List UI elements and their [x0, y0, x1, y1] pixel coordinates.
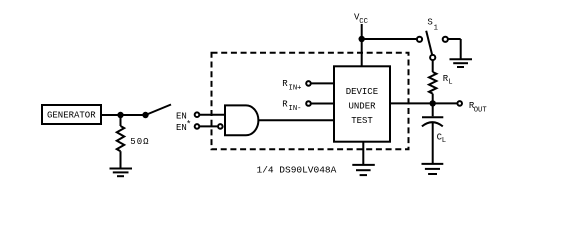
svg-text:1: 1 — [434, 25, 438, 33]
svg-text:L: L — [448, 79, 452, 87]
svg-text:IN-: IN- — [289, 105, 302, 113]
svg-text:UNDER: UNDER — [349, 102, 377, 112]
svg-text:*: * — [186, 119, 191, 129]
svg-text:CC: CC — [359, 18, 368, 26]
svg-text:1/4 DS90LV048A: 1/4 DS90LV048A — [257, 164, 337, 175]
svg-text:IN+: IN+ — [289, 85, 302, 93]
svg-text:L: L — [442, 137, 446, 145]
svg-text:S: S — [427, 18, 432, 28]
svg-text:R: R — [282, 99, 288, 109]
svg-text:DEVICE: DEVICE — [346, 87, 378, 97]
svg-text:OUT: OUT — [474, 107, 488, 115]
svg-text:TEST: TEST — [351, 116, 373, 126]
svg-text:R: R — [282, 79, 288, 89]
svg-text:50Ω: 50Ω — [130, 137, 149, 147]
svg-text:GENERATOR: GENERATOR — [47, 111, 96, 121]
